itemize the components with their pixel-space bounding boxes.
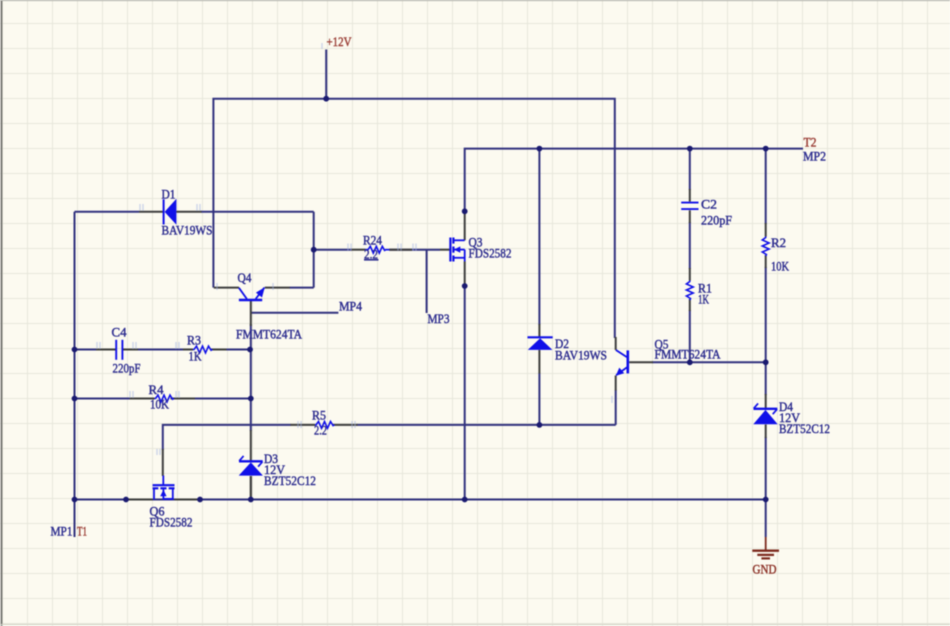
wire +12V stub bbox=[325, 50, 327, 99]
resistor R5 2.2 bbox=[315, 422, 335, 429]
svg-text:C4: C4 bbox=[112, 325, 127, 340]
pin mark D1 right bbox=[197, 204, 200, 211]
wire node A to R24 bbox=[314, 249, 352, 251]
svg-text:10K: 10K bbox=[771, 259, 789, 274]
svg-text:R3: R3 bbox=[187, 333, 201, 348]
svg-text:R4: R4 bbox=[149, 382, 164, 397]
wire top +12V rail bbox=[213, 99, 614, 338]
pin Q4 emitter bbox=[265, 287, 290, 289]
svg-text:10K: 10K bbox=[150, 397, 170, 412]
wire D1 left to rail bbox=[75, 211, 140, 213]
pin Q6 drain bbox=[127, 499, 153, 501]
svg-text:MP2: MP2 bbox=[803, 149, 826, 164]
wire R24 to Q3 gate bbox=[389, 249, 440, 251]
wire R5 right run to Q5 emitter bbox=[357, 424, 616, 426]
svg-text:GND: GND bbox=[753, 562, 777, 577]
pin mark R4 left bbox=[130, 391, 133, 398]
capacitor C4 220pF bbox=[116, 340, 122, 360]
pin R24 pin1 bbox=[351, 249, 366, 251]
pin Q4 collector bbox=[214, 287, 239, 289]
pin mark C4 right bbox=[133, 342, 136, 349]
svg-text:FMMT624TA: FMMT624TA bbox=[655, 347, 722, 362]
pin mark Q4 left bbox=[216, 283, 218, 290]
pin mark C4 left bbox=[97, 342, 100, 349]
pin Q3 drain bbox=[464, 211, 466, 240]
svg-text:BAV19WS: BAV19WS bbox=[555, 348, 607, 363]
pin R1 pin2 bbox=[689, 299, 691, 311]
svg-text:D1: D1 bbox=[162, 187, 176, 202]
resistor R3 1K bbox=[193, 346, 213, 353]
sheet border bbox=[1, 0, 3, 626]
wire bottom rail bbox=[75, 499, 766, 501]
junction D2 top bbox=[537, 146, 543, 152]
junction D2 bottom bbox=[537, 422, 543, 428]
svg-text:220pF: 220pF bbox=[113, 361, 141, 376]
pin R4 pin1 bbox=[130, 398, 155, 400]
pin Q6 gate bbox=[162, 449, 164, 476]
junction node A R24 tap bbox=[311, 247, 317, 253]
transistor Q5 FMMT624TA (NPN, base right) bbox=[616, 350, 628, 376]
zener diode D4 BZT52C12 bbox=[753, 403, 777, 424]
pin Q5 base bbox=[629, 361, 653, 363]
wire R1 bottom to Q5 base wire bbox=[689, 310, 691, 362]
svg-text:MP4: MP4 bbox=[339, 299, 362, 314]
pin C4 pin1 bbox=[96, 349, 116, 351]
wire R2 top bbox=[765, 149, 767, 224]
svg-text:R2: R2 bbox=[771, 235, 786, 250]
resistor R24 2.2 bbox=[365, 246, 389, 253]
pin C2 pin1 bbox=[689, 189, 691, 202]
junction GND node bbox=[763, 497, 769, 503]
wire D4 bottom to GND bbox=[765, 437, 767, 537]
wire R3 right to Q4 base line bbox=[226, 349, 250, 351]
junction Q6 drain pin bbox=[123, 497, 129, 503]
pin D1 cathode bbox=[176, 211, 201, 213]
pin mark R5 right bbox=[352, 421, 355, 428]
wire C4 row left bbox=[75, 349, 98, 351]
pin R2 pin2 bbox=[765, 255, 767, 268]
junction R4 left bbox=[72, 396, 78, 402]
wire R2 bottom to D4 bbox=[765, 267, 767, 395]
svg-text:FDS2582: FDS2582 bbox=[469, 246, 512, 261]
pin number ghost marks bbox=[97, 43, 612, 455]
pin Q3 source bbox=[464, 262, 466, 287]
pin R5 pin2 bbox=[333, 424, 358, 426]
pin mark Q4 mid bbox=[272, 283, 274, 290]
pin D1 anode bbox=[139, 211, 163, 213]
pin mark Q5 emitter bbox=[611, 396, 613, 403]
wire R4 row left bbox=[75, 398, 131, 400]
wire R4 right to Q4 base line bbox=[194, 398, 250, 400]
pin R24 pin2 bbox=[390, 249, 412, 251]
value underline (R24) bbox=[364, 259, 379, 261]
svg-text:1K: 1K bbox=[189, 349, 202, 364]
pin D2 cathode bbox=[538, 324, 540, 337]
pin Q5 emitter bbox=[615, 376, 617, 391]
capacitor C2 220pF bbox=[681, 203, 698, 210]
resistor R1 1K (vertical) bbox=[686, 281, 693, 301]
junction D3 bottom bbox=[248, 497, 254, 503]
svg-text:BZT52C12: BZT52C12 bbox=[779, 421, 830, 436]
junction R2 top bbox=[763, 146, 769, 152]
wire Q5 emitter vertical bbox=[615, 390, 617, 425]
pin C2 pin2 bbox=[689, 210, 691, 223]
pin C4 pin2 bbox=[123, 349, 139, 351]
junction C4 left bbox=[72, 347, 78, 353]
junction Q3 source bottom bbox=[462, 497, 468, 503]
junction bottom rail left bbox=[72, 497, 78, 503]
junction R1 bottom bbox=[687, 359, 693, 365]
mosfet Q6 FDS2582 (rotated, gate up) bbox=[153, 476, 175, 500]
pin mark Q6 gate bbox=[157, 449, 160, 455]
pin D3 cathode bbox=[250, 430, 252, 461]
pin mark +12V bbox=[321, 43, 323, 49]
wire D2 bottom vertical bbox=[538, 373, 540, 425]
pin Q4 base bbox=[250, 301, 252, 327]
svg-text:1K: 1K bbox=[698, 292, 709, 307]
svg-text:FDS2582: FDS2582 bbox=[150, 515, 193, 530]
wire C4 to R3 bbox=[137, 349, 184, 351]
pin D4 anode bbox=[765, 425, 767, 439]
svg-text:R5: R5 bbox=[312, 408, 326, 423]
wire D1 right to node A bbox=[201, 211, 314, 213]
ground GND symbol bbox=[752, 537, 779, 558]
junction R3 right bbox=[247, 347, 253, 353]
svg-text:T2: T2 bbox=[804, 135, 817, 150]
svg-text:BZT52C12: BZT52C12 bbox=[264, 473, 316, 488]
wire D2 top vertical bbox=[538, 149, 540, 325]
pin D2 anode bbox=[538, 350, 540, 374]
pin mark R24 right bbox=[398, 244, 416, 251]
transistor Q4 FMMT624TA (NPN, base down) bbox=[239, 287, 265, 300]
wire MP3 stub bbox=[426, 250, 428, 313]
junction R2 bottom bbox=[763, 359, 769, 365]
pin R2 pin1 bbox=[765, 223, 767, 237]
junction Q6 source pin bbox=[197, 497, 203, 503]
pin Q6 source bbox=[175, 499, 201, 501]
pin mark R5 left bbox=[298, 421, 301, 428]
pin D3 anode bbox=[250, 476, 252, 500]
wire Q5 base wire bbox=[652, 361, 766, 363]
junction Q3 drain bbox=[462, 208, 468, 214]
wire node A vertical bbox=[313, 212, 315, 288]
wire Q3 source to bottom rail bbox=[464, 286, 466, 500]
pin R1 pin1 bbox=[689, 268, 691, 281]
svg-text:2.2: 2.2 bbox=[314, 423, 327, 438]
pin D4 cathode bbox=[765, 394, 767, 408]
pin mark D1 left bbox=[140, 204, 143, 211]
svg-text:C2: C2 bbox=[701, 197, 717, 212]
wire Q4 emitter to node A bbox=[290, 287, 314, 289]
wire Q4 base line vertical bbox=[250, 324, 252, 431]
diode D2 BAV19WS (vertical, cathode up) bbox=[528, 337, 553, 350]
wire D3 bottom to bottom rail bbox=[250, 476, 252, 500]
svg-text:MP3: MP3 bbox=[428, 311, 450, 326]
svg-text:MP1: MP1 bbox=[51, 524, 73, 539]
pin mark R3 left bbox=[176, 342, 179, 349]
wire MP4 stub bbox=[251, 312, 339, 314]
pin Q3 gate bbox=[440, 249, 450, 251]
svg-text:220pF: 220pF bbox=[701, 213, 732, 228]
pin R4 pin2 bbox=[171, 398, 196, 400]
pin R3 pin1 bbox=[183, 349, 193, 351]
pin R5 pin1 bbox=[291, 424, 316, 426]
junction +12V on rail bbox=[323, 96, 329, 102]
svg-text:+12V: +12V bbox=[327, 34, 353, 49]
svg-text:FMMT624TA: FMMT624TA bbox=[236, 327, 303, 342]
svg-text:R24: R24 bbox=[363, 233, 382, 248]
pin Q5 collector bbox=[615, 337, 617, 350]
pin mark R4 right bbox=[176, 391, 179, 398]
svg-text:T1: T1 bbox=[77, 524, 87, 539]
wire T2/MP2 rail bbox=[465, 149, 803, 212]
resistor R2 10K (vertical) bbox=[762, 237, 769, 257]
resistor R4 10K bbox=[155, 395, 175, 402]
wire C2 top bbox=[689, 149, 691, 190]
junction C2 top bbox=[687, 146, 693, 152]
pin R3 pin2 bbox=[211, 349, 227, 351]
mosfet Q3 FDS2582 bbox=[450, 238, 464, 262]
svg-text:BAV19WS: BAV19WS bbox=[162, 223, 213, 238]
wire R5 left run bbox=[163, 425, 291, 450]
diode D1 BAV19WS bbox=[164, 199, 177, 225]
wire C2 bottom to R1 bbox=[689, 222, 691, 269]
pin mark R24 left bbox=[348, 244, 351, 251]
junction Q3 source bbox=[462, 283, 468, 289]
zener diode D3 BZT52C12 bbox=[239, 456, 263, 476]
svg-text:Q4: Q4 bbox=[238, 270, 252, 285]
wire left rail vertical bbox=[74, 212, 76, 537]
junction R4 right bbox=[248, 396, 254, 402]
